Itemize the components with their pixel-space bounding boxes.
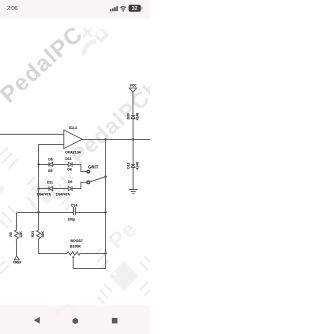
svg-text:D30: D30 [127,113,131,119]
wire feedback vertical right [105,139,107,268]
svg-text:D12: D12 [127,162,131,168]
wire pot to feedback node [80,252,106,254]
svg-text:32: 32 [132,6,138,12]
svg-text:OPA2134: OPA2134 [65,150,81,154]
svg-text:2:06: 2:06 [7,6,17,12]
svg-text:D13: D13 [65,157,71,161]
node inv-d11 [37,187,39,189]
svg-text:D11: D11 [47,181,53,185]
svg-text:R23: R23 [31,231,35,237]
wire VCC to D30 [132,92,134,115]
nav home circle [72,318,78,324]
svg-text:GE: GE [48,169,54,173]
wire D13 to switch contact [81,164,87,171]
VREF symbol [14,256,19,260]
svg-text:D9: D9 [68,180,72,184]
svg-text:5: 5 [60,132,61,134]
wire R5 to VREF [16,239,18,256]
VCC symbol [129,88,136,92]
svg-text:12K: 12K [19,231,23,238]
wire op-amp +input [0,133,64,135]
svg-text:R5: R5 [9,232,13,237]
svg-text:C14: C14 [71,203,77,207]
node output-right [104,138,106,140]
switch GRIT contact bottom [87,181,90,184]
resistor R5 [15,230,19,239]
watermark arc piece bottom [56,306,74,316]
svg-text:6: 6 [60,142,61,144]
diode D11 [39,186,69,191]
node switch-common [104,175,106,177]
wire op-amp output [82,138,150,140]
watermark logo heart piece top-right [94,28,110,44]
wire output node down to D12 [132,139,134,164]
watermark chip logo center (behind diodes) [27,172,74,211]
svg-text:1N4747A: 1N4747A [56,192,71,196]
wire feedback bottom with C14 [17,211,106,213]
svg-text:39K: 39K [41,231,45,238]
nav recents square [112,318,118,324]
svg-text:IC2.2: IC2.2 [69,126,78,130]
potentiometer BOOST [67,252,80,255]
wire D30 to output node [132,118,134,139]
node inv-bottom [37,211,39,213]
wire D12 to ground [132,167,134,189]
nav back triangle [34,317,40,324]
pin number marks [15,113,132,257]
svg-text:100p: 100p [67,217,75,221]
op-amp IC2.2 triangle [64,130,82,149]
node c14-right [104,211,106,213]
node output-vcc [132,138,134,140]
watermark chevron bottom-left [0,261,9,274]
wire R23 to pot [39,252,67,254]
diode D12 [131,164,135,167]
junction dots [37,138,134,254]
svg-text:GRIT: GRIT [88,165,99,170]
ground symbol [129,190,138,194]
watermark chip logo bottom-right [96,248,150,304]
watermark logo arc piece [84,41,96,55]
node pot-right [104,252,106,254]
svg-text:GE: GE [67,168,73,172]
status battery icon with 32 [129,5,141,12]
diode D9 [68,186,81,191]
svg-text:4148: 4148 [136,113,140,121]
diode D6 [39,162,69,167]
wire left down to R5 [16,212,18,230]
bottom nav bar background strip [0,306,150,334]
svg-text:D6: D6 [48,158,52,162]
diode D30 [131,114,135,116]
page background [0,0,150,334]
diode D13 [68,162,81,167]
switch GRIT contact top [87,170,90,173]
capacitor C14 [73,207,75,215]
svg-text:4148: 4148 [136,162,140,170]
svg-text:7: 7 [85,137,86,139]
svg-text:BOOST: BOOST [70,239,83,243]
svg-text:1N4747A: 1N4747A [37,192,52,196]
status bar background strip [0,0,150,19]
wire D9 to switch contact [81,182,87,188]
status signal bars [110,6,118,11]
wire op-amp -input [39,144,64,212]
resistor R23 [37,212,41,253]
watermark small x cluster [84,28,93,38]
pot wiper arrowhead [72,255,74,257]
switch GRIT lever [90,177,106,182]
svg-text:VCC: VCC [130,84,137,88]
pot wiper arrow [72,257,74,269]
svg-text:B100K: B100K [70,245,81,249]
status wifi icon [120,7,125,12]
wire wiper return [73,268,105,270]
watermark chip logo left-edge [0,147,18,228]
node inv-d6 [37,163,39,165]
svg-text:VREF: VREF [13,260,22,264]
